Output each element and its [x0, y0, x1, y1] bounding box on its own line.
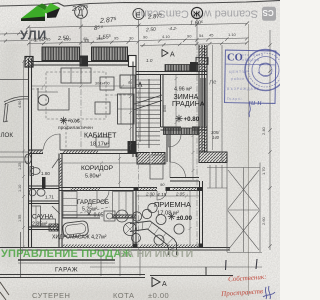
- svg-text:1.70: 1.70: [261, 166, 266, 175]
- stamp seal circle: [245, 50, 286, 91]
- corridor right horizontal wall: [170, 178, 199, 182]
- left outer wall: [29, 59, 32, 247]
- stairs left wall: [161, 75, 164, 128]
- kabinet door arc: [44, 134, 61, 150]
- sauna bench: [32, 206, 41, 226]
- svg-text:45: 45: [209, 33, 214, 38]
- section marker A bottom: [152, 278, 160, 287]
- bottom frame lines: [0, 267, 233, 278]
- rug dashed extension: [32, 89, 133, 149]
- paper top edge line: [0, 1, 280, 7]
- wc divider 2: [29, 201, 60, 204]
- zimna door arc: [169, 135, 182, 148]
- wc divider 1: [29, 186, 60, 189]
- svg-text:1.80: 1.80: [41, 171, 50, 176]
- axis circle Д: [75, 6, 88, 19]
- bottom wall hatch: [62, 245, 133, 249]
- small table bottom: [96, 137, 109, 147]
- kabinet bottom wall hatch: [63, 150, 98, 154]
- svg-text:2.87⁵: 2.87⁵: [147, 13, 163, 21]
- vestibule door arc: [170, 162, 186, 178]
- top dimension chain 1: [26, 22, 249, 30]
- column right of band2: [129, 56, 137, 67]
- interior dim line priemna: [136, 191, 200, 246]
- svg-text:Ж: Ж: [192, 10, 200, 19]
- svg-text:Е: Е: [136, 10, 141, 19]
- right wall top hatch: [199, 46, 207, 71]
- column top-left: [25, 57, 33, 68]
- column mid: [80, 56, 89, 67]
- axis circle Ж: [191, 7, 202, 18]
- desk: [38, 88, 69, 110]
- right wall window hatch: [199, 78, 207, 126]
- svg-text:4.90: 4.90: [18, 101, 22, 108]
- wc sauna vertical wall: [59, 154, 62, 248]
- svg-text:30: 30: [129, 35, 134, 40]
- wc wall stub: [42, 177, 46, 188]
- level mark +0.80: [175, 115, 182, 122]
- hydromassage tub: [62, 220, 89, 237]
- column kabinet corner: [128, 141, 137, 153]
- svg-text:ПРИЕМНА: ПРИЕМНА: [154, 200, 191, 209]
- svg-text:2.40: 2.40: [261, 126, 266, 135]
- garderob right wall: [133, 191, 136, 248]
- svg-text:и н: и н: [251, 97, 262, 107]
- svg-text:КОРИДОР: КОРИДОР: [81, 165, 114, 172]
- svg-text:45: 45: [83, 36, 88, 41]
- priemna top wall hatch: [140, 188, 157, 191]
- svg-text:90: 90: [187, 33, 192, 38]
- CamScanner watermark rotated: [134, 7, 276, 21]
- terrace right lines: [207, 163, 262, 253]
- entry steps: [207, 165, 227, 188]
- svg-text:90: 90: [143, 34, 148, 39]
- section marker A top: [162, 50, 168, 57]
- tiny dim numbers row: [30, 32, 237, 42]
- svg-text:ГРАДИНА: ГРАДИНА: [172, 101, 205, 108]
- stairs break lines: [135, 95, 163, 104]
- counter ticks: [135, 222, 177, 250]
- svg-text:СУТЕРЕН: СУТЕРЕН: [32, 291, 70, 300]
- svg-text:8/60: 8/60: [163, 105, 167, 112]
- wc1 toilet: [31, 168, 40, 175]
- kabinet top wall: [29, 62, 137, 66]
- svg-text:КОТА: КОТА: [113, 291, 134, 300]
- zimna parapet outline: [196, 58, 208, 65]
- svg-text:A: A: [170, 52, 175, 59]
- svg-text:1.10: 1.10: [18, 185, 22, 192]
- svg-text:-4.2-: -4.2-: [168, 26, 178, 31]
- axis circle Е: [133, 8, 144, 19]
- vestibule dim line: [192, 132, 195, 180]
- level mark 0.00: [168, 213, 175, 220]
- wc1 door diagonal: [52, 158, 59, 168]
- priemna right wall: [200, 181, 203, 247]
- svg-text:250: 250: [64, 36, 71, 41]
- sauna door diagonal: [52, 206, 60, 214]
- logo roofs green: [21, 3, 60, 21]
- svg-text:4.15: 4.15: [157, 192, 167, 198]
- right outer wall upper: [199, 45, 207, 152]
- svg-text:A: A: [162, 281, 167, 288]
- shower circles: [116, 210, 128, 222]
- svg-text:ГАРАЖ: ГАРАЖ: [55, 267, 78, 274]
- sauna bench bottom: [41, 219, 56, 226]
- fold line vertical right: [248, 24, 250, 296]
- svg-text:150⁵: 150⁵: [30, 37, 39, 42]
- svg-text:CS: CS: [262, 8, 274, 17]
- svg-text:2.87⁵: 2.87⁵: [71, 5, 89, 13]
- svg-text:95: 95: [114, 36, 119, 41]
- stairs arrowhead: [138, 82, 142, 87]
- corner pen mark: [0, 282, 9, 300]
- svg-text:±0.00: ±0.00: [148, 291, 169, 300]
- svg-text:18.17м²: 18.17м²: [90, 142, 110, 148]
- svg-text:ХИДРОМАСАЖ 4,27м²: ХИДРОМАСАЖ 4,27м²: [52, 235, 107, 241]
- garage lines: [18, 259, 115, 261]
- corridor wall hatches: [70, 188, 100, 191]
- wall stub x136: [133, 150, 136, 157]
- interior dim line corridor: [62, 162, 167, 165]
- exterior steps left: [0, 152, 29, 162]
- svg-text:4.10: 4.10: [162, 34, 171, 39]
- svg-text:54: 54: [199, 33, 204, 38]
- svg-text:95: 95: [46, 37, 51, 42]
- left vertical line bottom: [20, 232, 22, 278]
- svg-text:ЗИМНА: ЗИМНА: [174, 94, 199, 101]
- priemna wall columns: [134, 187, 139, 191]
- svg-text:5.80м²: 5.80м²: [85, 174, 101, 180]
- garderob door arc: [97, 191, 109, 203]
- zimna top wall: [136, 72, 207, 75]
- left outside dim line: [22, 60, 25, 249]
- coffee table: [95, 102, 110, 114]
- svg-text:1.0: 1.0: [146, 58, 153, 63]
- desk chair: [38, 95, 48, 105]
- wc2 sink: [29, 189, 36, 196]
- window band 1: [42, 47, 80, 61]
- top dimension chain 2: [27, 37, 249, 45]
- exterior left armchair: [4, 96, 29, 122]
- svg-text:Гл. а р х.:: Гл. а р х.:: [227, 97, 242, 101]
- right vertical dim line: [268, 30, 271, 250]
- zimna parapet block: [190, 62, 198, 72]
- axis dash-dot lines: [81, 44, 197, 250]
- axis vertical lines: [30, 19, 197, 81]
- stairs dim line: [129, 75, 132, 150]
- interior dim vertical zimna: [175, 75, 178, 127]
- priemna stools: [148, 203, 157, 212]
- stamp small rows: [227, 53, 263, 101]
- svg-text:КАБИНЕТ: КАБИНЕТ: [84, 133, 117, 140]
- svg-text:1.25: 1.25: [18, 163, 22, 170]
- garderob bottom wall: [62, 215, 136, 218]
- armchair right of sofa: [100, 77, 114, 90]
- svg-text:1.60⁵: 1.60⁵: [190, 20, 204, 27]
- sofa top: [61, 68, 91, 83]
- corridor bottom wall: [59, 188, 202, 191]
- stairs stringer: [148, 79, 150, 148]
- svg-text:р а й о н: р а й о н: [231, 77, 244, 81]
- corridor cabinet: [150, 155, 163, 179]
- svg-text:4.96 м²: 4.96 м²: [174, 87, 192, 93]
- sofa right: [118, 94, 135, 124]
- svg-text:ЛОК: ЛОК: [1, 132, 14, 139]
- svg-text:САУНА: САУНА: [32, 214, 54, 221]
- svg-text:УПРАВЛЕНИЕ ПРОДАЖ: УПРАВЛЕНИЕ ПРОДАЖ: [1, 248, 132, 260]
- building bottom wall: [0, 248, 230, 251]
- terrace upper vertical line: [221, 45, 223, 163]
- pen strokes bottom right: [226, 259, 258, 270]
- svg-text:2.87⁵: 2.87⁵: [99, 17, 117, 25]
- svg-text:90: 90: [128, 81, 132, 85]
- corridor top cupboards: [137, 153, 165, 165]
- svg-text:2.60: 2.60: [261, 216, 266, 225]
- svg-text:СО: СО: [227, 53, 243, 64]
- svg-text:+0.05: +0.05: [68, 119, 80, 125]
- kabinet right wall: [133, 62, 136, 154]
- svg-text:±0.00: ±0.00: [177, 215, 193, 222]
- stairs arrow line: [139, 82, 141, 142]
- wc1 sink oval: [25, 154, 31, 164]
- interior dim line kabinet: [32, 85, 133, 88]
- corridor vertical wall: [167, 130, 170, 162]
- zimna window sill band: [164, 128, 199, 135]
- garderob closet right: [113, 192, 134, 218]
- square cabinet top right: [120, 75, 135, 88]
- svg-text:140: 140: [212, 135, 220, 140]
- door arc corridor-priemna: [157, 191, 167, 201]
- svg-text:1.10: 1.10: [228, 32, 237, 37]
- svg-text:155⁵: 155⁵: [96, 36, 105, 41]
- garderob closet left: [63, 192, 77, 218]
- svg-text:304x490: 304x490: [95, 82, 110, 86]
- garderob dashed diagonal: [80, 207, 110, 213]
- stairs treads: [137, 80, 161, 145]
- red handwriting: [220, 273, 267, 298]
- sauna bottom wall: [29, 227, 60, 230]
- svg-text:2.85м²: 2.85м²: [32, 222, 48, 228]
- hatched wall stub right: [199, 152, 227, 163]
- zimna bottom wall: [161, 127, 208, 130]
- exterior line left: [0, 79, 29, 81]
- window band 2: [92, 47, 128, 61]
- svg-text:1.71: 1.71: [45, 195, 54, 200]
- svg-text:БА НИ ИМОТИ: БА НИ ИМОТИ: [119, 248, 193, 260]
- svg-text:+0.80: +0.80: [184, 116, 200, 123]
- zimna top window band: [165, 65, 191, 72]
- level mark +0.05: [60, 117, 67, 124]
- rug dashed: [46, 72, 106, 119]
- svg-text:2.50: 2.50: [145, 27, 156, 34]
- sauna heater: [49, 224, 58, 231]
- extra right chain line: [140, 41, 249, 47]
- corridor dim vertical: [118, 154, 121, 187]
- seal squiggle: [249, 101, 250, 117]
- svg-text:90: 90: [160, 182, 165, 187]
- stamp box: [225, 50, 276, 103]
- priemna counter band: [130, 221, 177, 255]
- svg-text:профилактичен: профилактичен: [58, 125, 93, 131]
- left dim rotated numbers: [18, 101, 22, 222]
- svg-text:1.55: 1.55: [18, 215, 22, 222]
- left exterior dim lines: [0, 32, 28, 42]
- svg-text:-0.05: -0.05: [92, 213, 104, 219]
- kabinet bottom wall: [29, 150, 137, 154]
- blue signature scribble: [263, 286, 275, 299]
- wc2 toilet: [37, 189, 45, 196]
- corner fixture: [104, 211, 115, 221]
